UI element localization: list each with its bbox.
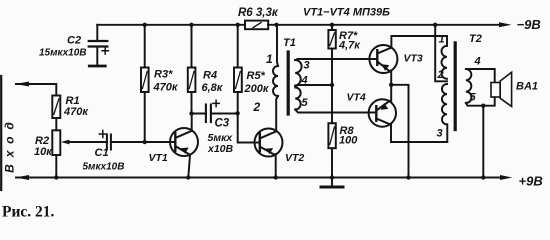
svg-text:3: 3 — [437, 128, 443, 140]
svg-text:1: 1 — [439, 34, 445, 46]
svg-text:200к: 200к — [244, 83, 270, 95]
svg-text:R3*: R3* — [154, 69, 173, 81]
svg-text:C2: C2 — [67, 35, 81, 47]
svg-text:4: 4 — [301, 75, 308, 87]
svg-text:х10В: х10В — [207, 143, 234, 155]
svg-text:1: 1 — [266, 52, 273, 66]
svg-text:−9В: −9В — [517, 17, 541, 32]
svg-text:6,8к: 6,8к — [202, 82, 224, 94]
svg-text:T1: T1 — [283, 37, 296, 49]
svg-text:4,7к: 4,7к — [338, 40, 361, 52]
svg-text:R5*: R5* — [247, 70, 266, 82]
svg-text:470к: 470к — [153, 82, 179, 94]
svg-text:VT2: VT2 — [285, 152, 304, 164]
svg-text:R4: R4 — [203, 70, 217, 82]
svg-text:100: 100 — [339, 135, 358, 147]
svg-text:VT4: VT4 — [347, 92, 366, 104]
svg-text:T2: T2 — [469, 33, 482, 45]
svg-text:2: 2 — [253, 100, 261, 114]
svg-text:10к: 10к — [34, 146, 53, 158]
svg-text:+9В: +9В — [519, 174, 543, 189]
svg-text:470к: 470к — [63, 106, 89, 118]
svg-text:Рис. 21.: Рис. 21. — [2, 204, 55, 221]
svg-text:VT1−VT4 МП39Б: VT1−VT4 МП39Б — [303, 7, 390, 19]
svg-text:Вход: Вход — [3, 115, 17, 173]
svg-text:5мкх10В: 5мкх10В — [83, 162, 125, 173]
svg-text:15мкх10В: 15мкх10В — [39, 48, 87, 59]
svg-text:5: 5 — [302, 97, 309, 109]
svg-text:VT1: VT1 — [149, 152, 168, 164]
svg-text:C3: C3 — [215, 118, 230, 130]
svg-text:3: 3 — [304, 60, 310, 72]
svg-text:2: 2 — [437, 69, 444, 81]
svg-text:5: 5 — [470, 92, 477, 104]
svg-text:VT3: VT3 — [404, 53, 423, 65]
svg-text:C1: C1 — [95, 147, 109, 159]
svg-text:4: 4 — [474, 56, 481, 68]
svg-text:R6 3,3к: R6 3,3к — [238, 7, 279, 19]
svg-text:BA1: BA1 — [516, 81, 538, 93]
